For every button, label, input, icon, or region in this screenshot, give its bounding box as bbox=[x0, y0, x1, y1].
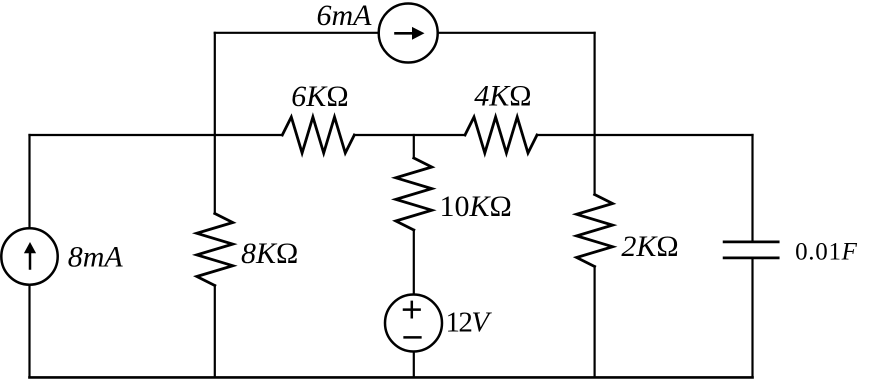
wire main row: 4K to right rail bbox=[537, 134, 753, 136]
svg-text:4KΩ: 4KΩ bbox=[474, 79, 531, 112]
wire right rail lower (capacitor to bottom) bbox=[751, 258, 753, 378]
current source I1 6mA circle bbox=[379, 4, 438, 63]
voltage source V1 minus sign bbox=[405, 336, 421, 339]
resistor R 6K zigzag bbox=[282, 117, 354, 153]
resistor R 4K zigzag bbox=[465, 117, 537, 153]
resistor R 10K zigzag bbox=[396, 158, 432, 230]
wire 8K branch upper stub bbox=[214, 135, 216, 214]
current source I1 6mA arrow bbox=[396, 32, 414, 35]
wire 10K to 12V source bbox=[413, 230, 415, 295]
wire top row left segment to 6mA source bbox=[215, 32, 379, 34]
current source I2 8mA circle bbox=[1, 228, 57, 284]
wire 8K branch lower stub bbox=[214, 286, 216, 378]
svg-text:6KΩ: 6KΩ bbox=[291, 80, 348, 113]
wire bottom rail bbox=[30, 376, 753, 379]
svg-text:8mA: 8mA bbox=[68, 241, 124, 274]
capacitor C1 0.01F bottom plate bbox=[724, 257, 778, 260]
resistor R 8K zigzag bbox=[197, 214, 233, 286]
svg-text:8KΩ: 8KΩ bbox=[241, 237, 298, 270]
wire 2K branch lower stub bbox=[593, 267, 595, 378]
svg-text:2KΩ: 2KΩ bbox=[621, 230, 678, 263]
svg-text:6mA: 6mA bbox=[317, 0, 373, 32]
resistor R 2K zigzag bbox=[577, 195, 613, 267]
wire left rail upper (to 8mA source) bbox=[28, 135, 30, 228]
svg-text:12V: 12V bbox=[446, 307, 493, 339]
wire 12V source to bottom rail bbox=[413, 352, 415, 378]
voltage source V1 plus sign bbox=[404, 302, 420, 317]
capacitor C1 0.01F top plate bbox=[724, 241, 778, 244]
wire top row right segment from 6mA source bbox=[438, 32, 595, 34]
svg-text:10KΩ: 10KΩ bbox=[440, 190, 512, 223]
svg-text:0.01F: 0.01F bbox=[795, 238, 858, 265]
wire main row: 6K to 4K segment bbox=[354, 134, 465, 136]
wire top loop left vertical (node A up to 6mA row) bbox=[214, 33, 216, 135]
voltage source V1 12V circle bbox=[385, 295, 442, 352]
wire left rail lower (8mA source to bottom) bbox=[28, 285, 30, 378]
wire 2K branch upper stub bbox=[593, 135, 595, 195]
wire right rail upper (to capacitor) bbox=[751, 135, 753, 242]
current source I2 8mA arrow bbox=[29, 253, 32, 269]
wire 10K branch upper stub (junction at main row) bbox=[413, 135, 415, 158]
wire main row: left rail to 6K resistor bbox=[30, 134, 283, 136]
wire top loop right vertical down to main row bbox=[593, 33, 595, 135]
